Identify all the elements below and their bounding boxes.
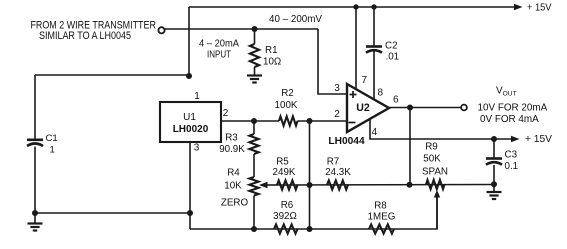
pin label 2 (U1) [223,108,229,119]
svg-text:1MEG: 1MEG [368,212,396,223]
ground (R1) [247,76,262,83]
svg-text:249K: 249K [273,167,296,178]
power +15V (lower) arrow [511,136,520,142]
IC U1 box [160,102,221,142]
wire: output node down to zero-span line [409,108,411,185]
svg-text:2: 2 [334,109,340,120]
svg-text:U2: U2 [356,102,370,114]
svg-text:R2: R2 [281,88,294,99]
svg-text:3: 3 [194,143,200,154]
pin label 1 (U1) [194,91,200,102]
resistor R3 labels [219,133,245,156]
capacitor C3 labels [505,150,519,173]
junction: C3 top [491,136,497,142]
junction: node at (189,76) [186,73,192,79]
svg-text:0.1: 0.1 [505,161,519,172]
resistor R7 labels [325,157,351,179]
svg-text:SIMILAR TO A LH0045: SIMILAR TO A LH0045 [39,30,131,42]
power +15V (top) arrow [514,4,523,10]
resistor R8 labels [368,201,396,223]
wire: U1 pin 3 down [189,142,191,229]
svg-text:10Ω: 10Ω [263,57,281,68]
op-amp U2 plus sign [350,91,357,98]
svg-text:10V FOR 20mA: 10V FOR 20mA [478,103,548,114]
svg-text:3: 3 [334,83,340,94]
junction: pin 8 / C2 rail tap [371,4,376,9]
resistor R6 [274,224,298,233]
op-amp U2 name [356,102,370,114]
junction: output node [407,105,413,111]
resistor R5 [277,180,298,189]
resistor R3 [249,121,258,154]
op-amp U2 minus sign [349,122,356,124]
capacitor C3 [486,159,502,165]
junction: R1 top [252,26,258,32]
svg-text:1: 1 [50,145,55,156]
pin label 3 (U1) [194,143,200,154]
svg-text:2: 2 [223,108,229,119]
resistor R5 labels [273,157,296,179]
resistor R1 [250,29,259,75]
svg-text:R7: R7 [327,157,340,168]
wire: op-amp output [389,107,461,109]
ground (C3) [487,184,502,199]
power +15V (top) label [527,2,552,13]
wire: bottom feedback line [190,196,437,230]
wire: horizontal from C1 to node [35,74,189,76]
svg-text:C1: C1 [46,133,58,144]
IC U1 name [183,112,196,123]
wire: pin 7 to +15V rail [355,7,357,90]
svg-text:7: 7 [362,75,368,86]
svg-text:LH0044: LH0044 [328,136,365,147]
potentiometer R4 labels [221,168,249,209]
potentiometer R4 [249,177,258,229]
svg-text:R9: R9 [425,142,438,153]
potentiometer R9 wiper arrow [434,190,440,229]
terminal: input (open circle) [158,27,164,33]
pin label 4 [372,127,378,138]
svg-text:+ 15V: + 15V [525,134,552,145]
junction: feedback bus bottom [307,226,313,232]
junction: R3 top [251,118,257,124]
resistor R2 [279,116,298,125]
svg-text:0V FOR 4mA: 0V FOR 4mA [480,114,539,125]
wire: input line to op-amp branch corner [165,28,319,30]
svg-text:4: 4 [372,127,378,138]
wire: ground rail to U1 pin 3 branch [35,212,190,214]
svg-text:U1: U1 [183,112,196,123]
svg-text:10K: 10K [224,181,242,192]
IC U1 part number LH0020 [173,124,209,135]
label: output values [478,103,548,126]
svg-text:LH0020: LH0020 [173,124,209,135]
svg-text:+ 15V: + 15V [527,2,552,13]
svg-text:100K: 100K [275,100,298,111]
capacitor C2 labels [385,41,399,63]
capacitor C1 lower wire [34,147,36,214]
wire: C2 to pin 8 [373,50,375,100]
potentiometer R9 labels [422,142,448,178]
svg-text:6: 6 [393,95,399,106]
wire: pin 4 to lower +15V rail [370,119,511,139]
svg-text:8: 8 [378,88,384,99]
resistor R2 labels [275,88,298,111]
wire: corner down to pin 3 [318,29,347,94]
capacitor C2 [366,47,382,53]
op-amp U2 triangle [347,84,389,132]
wire: top +15V supply rail [189,6,515,8]
capacitor C3 lower wire [493,165,495,185]
svg-text:C3: C3 [505,150,518,161]
svg-text:24.3K: 24.3K [325,167,351,178]
pin label 3 [334,83,340,94]
note: input source description [30,19,156,42]
svg-text:C2: C2 [385,41,398,52]
resistor R8 [369,224,394,233]
svg-text:R4: R4 [227,168,240,179]
label: 40-200mV [269,14,322,25]
resistor R6 labels [273,200,297,222]
junction: R4 bottom [251,226,257,232]
potentiometer R9 [426,180,445,189]
svg-text:50K: 50K [423,154,441,165]
svg-text:.01: .01 [386,52,400,63]
junction: C3 bottom / zero-span line end [491,181,497,187]
svg-text:40 – 200mV: 40 – 200mV [269,14,322,25]
power +15V (lower) label [525,134,552,145]
capacitor C1 upper wire [34,75,36,140]
pin label 8 [378,88,384,99]
svg-text:R8: R8 [374,201,387,212]
svg-text:ZERO: ZERO [221,198,249,209]
wire: U1 pin 2 to R2 [221,120,279,122]
svg-text:R6: R6 [281,200,294,211]
svg-text:SPAN: SPAN [422,167,448,178]
capacitor C1 value labels [46,133,58,156]
wire: feedback bus vertical [309,121,311,229]
resistor R7 [327,180,348,189]
svg-text:1: 1 [194,91,200,102]
label: 4-20mA INPUT [199,39,239,61]
junction: ground rail meets pin 3 wire [187,210,193,216]
resistor R1 labels [263,45,281,68]
capacitor C3 upper wire [493,139,495,159]
svg-text:4 – 20mA: 4 – 20mA [199,39,239,50]
wire: R3 to R4 [253,154,255,177]
wire: R2 to op-amp pin 2 [298,120,348,122]
pin label 7 [362,75,368,86]
terminal: Vout (open circle) [461,105,467,111]
svg-text:R3: R3 [225,133,238,144]
wire: pin 8 / C2 upper [373,7,375,47]
ground (left rail) [28,213,43,231]
junction: pin 7 rail tap [353,4,358,9]
op-amp U2 part number LH0044 [328,136,365,147]
svg-text:90.9K: 90.9K [219,144,245,155]
capacitor C1 [27,140,43,146]
wire: zero-span line [277,184,494,187]
svg-text:392Ω: 392Ω [273,211,297,222]
junction: C1 / ground rail [32,210,38,216]
pin label 6 [393,95,399,106]
svg-text:R5: R5 [276,157,289,168]
pin label 2 [334,109,340,120]
junction: feedback bus top [307,118,313,124]
label: Vout [496,86,517,98]
svg-text:INPUT: INPUT [207,50,231,61]
potentiometer R4 wiper arrow [259,182,277,188]
junction: output divider tap [407,182,413,188]
wire: vertical from rail down to input node [188,7,190,76]
svg-text:R1: R1 [265,45,278,56]
junction: bus on zero-span line [307,182,313,188]
